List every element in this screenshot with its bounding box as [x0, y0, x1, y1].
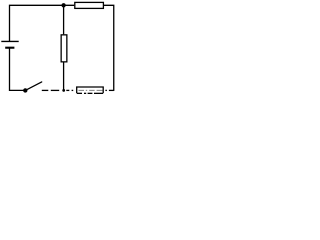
component box bottom edge dash 3	[88, 92, 93, 94]
dashed wire segment 3	[66, 89, 69, 91]
component box (bottom, load outline: top/left/right edges)	[77, 87, 104, 93]
dashed wire dot segment 6 inside box	[86, 89, 87, 91]
dashed wire segment 5 inside box	[79, 89, 85, 91]
switch S1 lever	[25, 82, 41, 91]
dashed wire segment 7 inside box	[89, 89, 94, 91]
resistor R2 (middle vertical)	[61, 35, 67, 62]
component box bottom edge dash 1	[77, 92, 82, 94]
battery cell plate long (positive)	[1, 40, 18, 42]
dashed wire dot segment 4	[72, 89, 74, 91]
battery cell plate short thick (negative)	[5, 47, 14, 49]
dashed wire segment 2	[51, 89, 59, 91]
resistor R1 (top horizontal)	[75, 2, 104, 8]
wire top-right: from R1 right lead to top-right corner down right side	[104, 5, 114, 91]
wire branch: R2 bottom down to bottom node	[63, 62, 65, 90]
component box bottom edge dash 2	[84, 92, 86, 94]
component box bottom edge dash 4	[94, 92, 103, 94]
dashed wire segment 10 to bottom-right corner	[109, 89, 114, 91]
dashed wire segment 1	[42, 89, 49, 91]
wire branch: top node down to resistor R2	[63, 5, 65, 34]
dashed wire segment 8 inside box	[97, 89, 103, 91]
wire top-left: from resistor R1 left lead to top-left corner down to battery	[10, 5, 75, 41]
node B junction dot (bottom)	[62, 89, 65, 92]
switch S1 pivot dot	[23, 88, 27, 92]
dashed wire dot segment 9	[105, 89, 107, 91]
node A junction dot (top)	[61, 3, 65, 7]
wire left-bottom: battery down, bottom-left corner, to switch pivot	[10, 48, 26, 91]
